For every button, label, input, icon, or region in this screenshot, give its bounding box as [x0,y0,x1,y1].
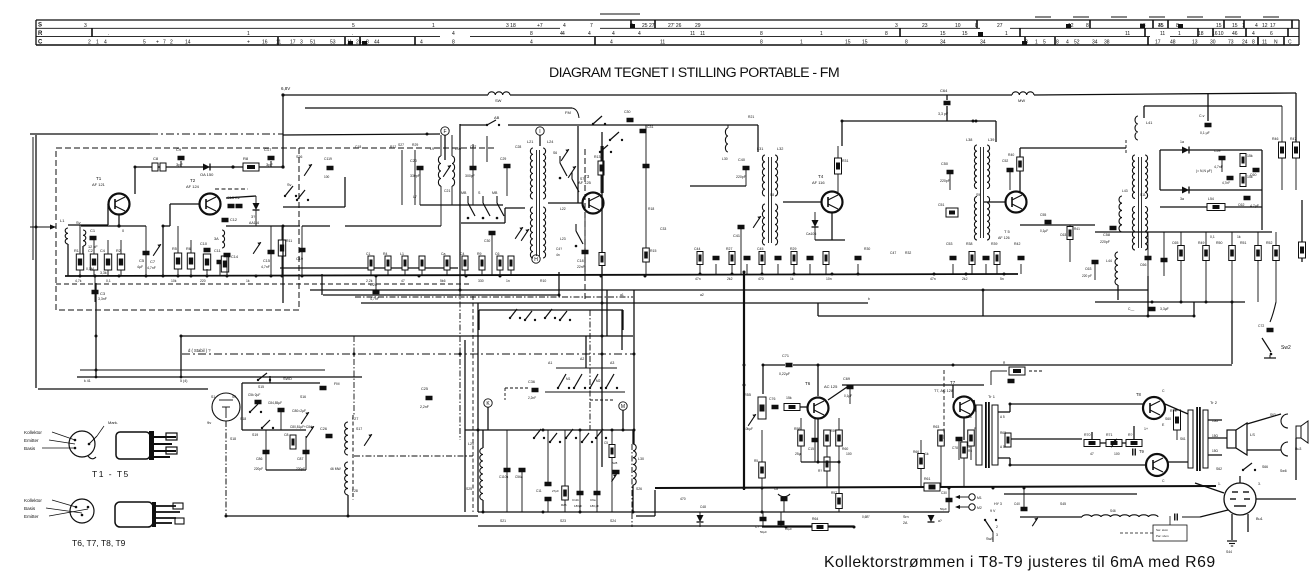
component det-row-3 [1255,232,1262,302]
svg-text:C12: C12 [230,218,237,222]
node n65 [1180,301,1183,304]
svg-text:8: 8 [1056,40,1059,46]
switch osc-4 [595,429,607,439]
svg-text:Bu1: Bu1 [1256,517,1263,521]
capacitor C96 trim [612,461,620,482]
ruler digit [1252,40,1255,46]
capacitor C63 [1082,260,1099,280]
svg-text:11: 11 [700,31,705,37]
switch Sw4 [1242,463,1287,473]
svg-text:100: 100 [1114,452,1120,456]
capacitor C13 pair [215,189,248,208]
switch FM4 [609,132,623,141]
svg-text:0,1: 0,1 [1210,235,1215,239]
svg-text:C17: C17 [264,147,272,152]
ruler digit [1232,23,1238,29]
wire din drop2 [1247,514,1249,532]
capacitor C24 [370,276,380,301]
node n27 [1003,273,1006,276]
svg-text:15Ω: 15Ω [1212,449,1219,453]
svg-text:Sw: stvm: Sw: stvm [1156,528,1169,532]
component location ruler [36,14,1299,46]
wire t4 base [783,201,821,203]
switch Sw5 [984,519,998,542]
svg-text:SWD: SWD [283,377,292,381]
lamp/battery circle [207,393,240,425]
wire af out h [1160,206,1207,208]
resistor R65 [968,427,980,460]
node n14 [418,275,421,278]
value label 39 [1114,452,1120,456]
resistor R71 [1106,433,1122,447]
svg-text:34: 34 [940,40,946,46]
svg-text:0,1µF: 0,1µF [1040,229,1048,233]
svg-text:1: 1 [820,31,823,37]
svg-text:25 27: 25 27 [642,23,655,29]
capacitor C5 [137,226,150,276]
ruler tick [1287,28,1289,37]
svg-text:3: 3 [996,533,998,537]
svg-text:C31: C31 [647,125,653,129]
svg-text:15: 15 [940,31,946,37]
node n19 [699,273,702,276]
component am1 [284,433,296,449]
resistor R25 [561,430,568,512]
svg-text:S27: S27 [398,143,404,147]
svg-text:4: 4 [560,31,563,37]
svg-text:C53: C53 [946,242,952,246]
wire right edge drop [1295,93,1297,142]
svg-text:C9a: C9a [590,498,596,502]
svg-text:8: 8 [1086,23,1089,29]
legend transistor T6-T9 pinout [24,498,94,523]
svg-text:+: + [156,40,159,46]
value label 22 [560,237,566,241]
switch bank sw3 [605,374,618,389]
svg-text:4: 4 [452,31,455,37]
node n64 [1151,301,1154,304]
value label 13 [790,277,794,281]
svg-text:7: 7 [590,23,593,29]
transistor T3 [578,174,604,214]
node d(Stabil) [188,348,211,353]
node n66 [1205,301,1208,304]
svg-text:Mark.: Mark. [108,420,118,425]
node n20 [731,273,734,276]
resistor R66 [754,430,765,512]
wire af out r [1225,206,1262,208]
wire right top link [1144,105,1282,107]
capacitor C74 [755,512,767,534]
node n32 [972,120,975,123]
svg-text:L24: L24 [547,140,553,144]
svg-text:11: 11 [1262,40,1267,46]
svg-text:C51: C51 [938,203,944,207]
svg-text:470: 470 [758,277,764,281]
wire c64 down [946,106,948,121]
svg-text:4,7k: 4,7k [75,279,82,283]
svg-text:C?: C? [755,525,759,529]
svg-text:L22: L22 [560,207,566,211]
svg-text:C86: C86 [256,457,262,461]
wire din right [1256,498,1296,500]
component row4-2 [983,256,990,274]
ruler digit [820,31,823,37]
capacitor C52 [1002,159,1014,190]
svg-text:C27: C27 [470,145,476,149]
node n61 [761,511,764,514]
capacitor C1 [88,228,98,249]
wire l10 stub [451,135,453,156]
wire jack drop [1295,438,1297,480]
wire if1 in [757,125,759,152]
wire agc line [77,376,362,378]
node n86 [579,429,582,432]
svg-text:Srn: Srn [903,515,909,519]
capacitor C90 [499,430,511,512]
svg-text:C20: C20 [410,159,417,163]
value label 49 [1060,502,1066,506]
switch bank sw1 [573,374,586,389]
svg-text:C26: C26 [320,427,327,431]
value label 41 [560,519,566,523]
circled node F [441,127,449,135]
svg-text:5: 5 [143,40,146,46]
capacitor C20 [410,159,424,205]
svg-text:C66: C66 [1140,263,1146,267]
wire inner shield dashed [56,283,470,285]
value label 29 [890,251,896,255]
label fuse [862,515,909,525]
svg-text:47: 47 [1090,452,1094,456]
jack Bu3 [1281,421,1308,456]
svg-text:C25: C25 [421,387,428,391]
value label 8 [478,279,484,283]
wire r7x link2 [1122,442,1126,444]
battery terminal plus [955,494,982,500]
wire am bottom1 [478,511,949,513]
wire topleft v [32,137,34,260]
trimmer C32 [515,227,523,239]
node n62 [785,526,788,529]
svg-text:R38: R38 [966,242,972,246]
svg-text:C33: C33 [660,227,666,231]
diode D5 [1180,187,1189,202]
wire lower rail [1004,493,1137,495]
resistor R43 [1240,154,1253,167]
svg-text:T6: T6 [805,381,811,386]
wire lamp down [225,421,227,516]
wire det bus1 [1095,231,1272,233]
capacitor C119 [324,157,334,179]
node n42 [1193,315,1196,318]
wire x634 drop [633,290,635,444]
component det-row-1 [1203,232,1210,302]
wire avc mid line [283,134,440,135]
node n2 [118,275,121,278]
svg-text:S17: S17 [356,427,362,431]
svg-text:HY 3: HY 3 [994,502,1002,506]
svg-text:2,2nF: 2,2nF [420,405,429,409]
svg-text:M1: M1 [566,377,571,381]
node n31 [841,120,844,123]
inductor L9/L10 pair [430,147,461,226]
capacitor C29 [500,157,511,196]
capacitor C92 [536,430,559,512]
node n25 [933,273,936,276]
svg-text:C5: C5 [604,441,608,445]
svg-text:T1 - T5: T1 - T5 [92,469,130,479]
wire bank out [505,207,525,209]
trimmer C16 [253,242,261,254]
svg-text:R13: R13 [594,155,600,159]
wire sw5 drop [992,516,994,532]
svg-text:2k2: 2k2 [962,277,968,281]
capacitor C57 [1199,114,1212,135]
svg-text:46: 46 [1232,31,1238,37]
svg-text:S26: S26 [636,487,642,491]
svg-text:50µF: 50µF [760,530,767,534]
switch mid-1 [524,311,536,321]
node n72 [95,335,98,338]
component row3-3 [744,256,751,274]
filter C8 [152,156,166,171]
value label 2 [171,279,177,283]
svg-text:R9: R9 [477,252,482,256]
wire 1126 drop [1143,106,1145,118]
svg-text:10k: 10k [171,279,177,283]
node n57 [482,511,485,514]
svg-text:S18: S18 [230,437,236,441]
node n38 [558,294,561,297]
svg-text:R42: R42 [1014,242,1020,246]
svg-text:S62: S62 [1216,467,1222,471]
svg-text:220: 220 [200,279,206,283]
component row4-3 [994,252,1000,275]
resistor row2-3 [419,256,425,276]
capacitor C-af 3,3uF [1128,307,1169,312]
svg-text:C1: C1 [90,228,96,233]
svg-text:T4: T4 [818,174,824,179]
svg-text:C72: C72 [1258,324,1264,328]
node n41 [1147,315,1150,318]
svg-text:A 5: A 5 [1000,445,1005,449]
node n81 [601,335,604,338]
svg-text:13: 13 [1192,40,1198,46]
node n82 [633,429,636,432]
node n71 [353,353,356,356]
svg-text:C60: C60 [1250,173,1256,177]
node n22 [793,273,796,276]
resistor R8 (boxed) [243,156,259,171]
svg-text:2: 2 [170,40,173,46]
wire am mid2 [241,400,243,430]
svg-text:R30: R30 [864,247,870,251]
wire osc top l [482,430,484,448]
svg-text:C55: C55 [1040,213,1046,217]
svg-text:R39: R39 [991,242,997,246]
node n63 [853,526,856,529]
svg-text:27' 26: 27' 26 [668,23,682,29]
wire l9 stub [440,135,442,156]
battery terminal minus [955,504,982,510]
svg-text:27: 27 [997,23,1003,29]
svg-text:R__: R__ [1003,361,1009,365]
svg-text:Ca106: Ca106 [806,232,816,236]
svg-text:a1: a1 [620,293,624,297]
svg-text:L44: L44 [1106,259,1112,263]
capacitor C30b [484,231,496,276]
svg-text:T3: T3 [584,174,590,179]
wire sw2 feed [1231,302,1233,364]
ruler digit [980,40,986,46]
svg-text:C52: C52 [1002,159,1008,163]
inductor L (SW choke) [488,92,510,103]
svg-text:17: 17 [1270,23,1276,29]
svg-text:52: 52 [1074,40,1080,46]
wire t2 base v [169,204,171,226]
svg-text:C59: C59 [1214,149,1220,153]
wire FM rail [305,107,572,109]
wire d2 row [226,225,300,227]
ruler digit [1218,31,1224,37]
capacitor C95 [590,430,601,512]
IF transformer Tr-FM1 [527,140,553,258]
wire bank up [585,336,587,368]
wire bus d drop1 [478,310,480,330]
svg-text:Kollektor: Kollektor [24,498,42,503]
svg-text:C5: C5 [139,258,145,263]
wire band switch line [460,124,487,126]
value label 31 [1060,233,1066,237]
wire osc row [465,429,633,431]
wire ferrite core dashed [352,415,354,500]
ruler digit [905,40,908,46]
wire t2 collector [226,196,256,198]
ruler tick [1167,20,1169,28]
wire out rail3b [1009,458,1011,465]
wire mixer row [345,225,441,227]
value label 5 [366,279,373,283]
ruler tick [1223,20,1225,28]
svg-text:8: 8 [452,40,455,46]
svg-text:1k: 1k [246,279,250,283]
text de-emphasis [1196,169,1212,173]
ruler digit [1158,23,1164,29]
svg-text:T9: T9 [1139,449,1145,454]
node n26 [965,273,968,276]
ruler tick [414,37,416,45]
svg-text:L54: L54 [1208,197,1214,201]
ruler digit [760,31,763,37]
ferrite antenna L27 upper [345,417,363,455]
svg-text:23: 23 [922,23,928,29]
transistor T2 [186,178,221,215]
trimmer IF1 [753,216,761,228]
wire bus e drop [817,303,819,316]
wire audio ground rail [655,486,1216,488]
capacitor C84 [268,401,285,430]
svg-text:R58: R58 [794,427,800,431]
value label 56 [700,293,704,297]
svg-text:LS: LS [1250,432,1255,437]
value label 21 [560,207,566,211]
wire tr2 tap3 [1208,454,1222,456]
labels T8/T9 [1144,389,1165,483]
wire am-audio bottom [762,511,949,513]
svg-text:0,6B°: 0,6B° [862,515,871,519]
wire din sw [1200,510,1228,517]
wire t2 bias drop [95,283,97,377]
node n78 [1091,442,1094,445]
ruler tick [899,28,901,37]
svg-text:3,3nF: 3,3nF [98,297,107,301]
svg-text:L21: L21 [527,140,533,144]
svg-text:R25: R25 [561,503,567,507]
svg-text:T2: T2 [190,178,196,183]
inductor L29 osc [466,442,483,500]
capacitor C62 [1238,196,1259,208]
svg-text:5: 5 [352,23,355,29]
svg-text:470: 470 [680,497,686,501]
node n47 [743,384,746,387]
svg-text:46 MW: 46 MW [330,467,342,471]
svg-text:15: 15 [962,31,968,37]
node n45 [817,364,820,367]
svg-text:Sv: Sv [76,220,81,225]
wire bus e [818,315,1194,317]
svg-text:T8: T8 [1136,392,1142,397]
component row3-4 [759,252,765,275]
wire det bot [1160,189,1262,191]
ruler tick [1212,28,1214,37]
svg-text:2k2: 2k2 [727,277,733,281]
svg-text:180pF: 180pF [574,504,582,508]
svg-text:C9: C9 [176,147,182,152]
diode D2 AA116 [249,196,260,226]
svg-text:8: 8 [1252,40,1255,46]
diode D6 [928,515,942,523]
value label 37 [925,452,929,456]
wire dashed right2 [584,149,586,300]
svg-text:48: 48 [1170,40,1176,46]
wire m drop [622,410,624,430]
svg-text:24: 24 [356,40,362,46]
svg-text:330pF: 330pF [410,174,420,178]
value label 9 [506,279,510,283]
labels row4 [946,242,1020,246]
svg-text:330: 330 [478,279,484,283]
svg-text:C71: C71 [782,354,789,358]
svg-text:S28: S28 [612,461,618,465]
svg-text:DIAGRAM TEGNET I STILLING PORT: DIAGRAM TEGNET I STILLING PORTABLE - FM [549,65,839,81]
svg-text:R66: R66 [913,450,919,454]
svg-text:L32: L32 [777,147,783,151]
svg-text:C18: C18 [355,145,361,149]
wire t6 emit [817,419,819,462]
wire base row link [81,225,146,227]
svg-text:9 V: 9 V [990,509,996,513]
wire t3 coll up [602,146,604,193]
ground din [1227,541,1237,546]
node n34 [282,225,285,228]
svg-text:5 (4): 5 (4) [180,379,187,383]
wire c64 up [946,95,948,100]
svg-text:C30: C30 [624,110,630,114]
svg-text:15: 15 [1232,23,1238,29]
svg-text:0,22µF: 0,22µF [779,372,790,376]
value label 33 [1210,235,1215,239]
